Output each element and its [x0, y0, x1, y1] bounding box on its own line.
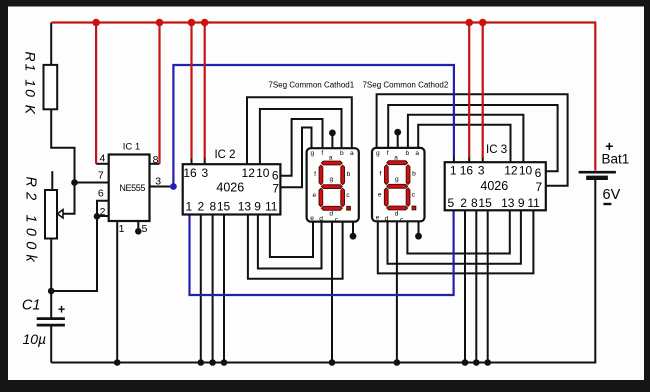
svg-text:+: + [58, 303, 65, 317]
svg-text:1: 1 [119, 223, 125, 235]
svg-text:7Seg Common Cathod2: 7Seg Common Cathod2 [362, 81, 448, 90]
svg-text:10: 10 [256, 166, 270, 180]
svg-text:10µ: 10µ [22, 331, 46, 347]
svg-text:R1 10 K: R1 10 K [23, 52, 39, 117]
svg-text:12: 12 [242, 166, 256, 180]
svg-text:1: 1 [450, 163, 457, 177]
svg-text:5: 5 [447, 196, 454, 210]
svg-text:3: 3 [478, 163, 485, 177]
svg-text:6: 6 [272, 168, 279, 182]
svg-text:2: 2 [460, 196, 467, 210]
svg-text:15: 15 [478, 196, 492, 210]
svg-text:9: 9 [518, 196, 525, 210]
svg-text:6: 6 [98, 188, 104, 200]
svg-text:8: 8 [209, 199, 216, 213]
svg-text:C1: C1 [22, 297, 41, 313]
svg-text:3: 3 [201, 166, 208, 180]
svg-text:1: 1 [185, 199, 192, 213]
svg-text:7Seg Common Cathod1: 7Seg Common Cathod1 [268, 81, 354, 90]
svg-text:7: 7 [535, 180, 542, 194]
svg-text:IC 2: IC 2 [214, 149, 235, 161]
svg-text:8: 8 [153, 154, 159, 166]
svg-text:3: 3 [155, 176, 161, 188]
svg-text:13: 13 [238, 199, 252, 213]
svg-text:15: 15 [217, 199, 231, 213]
svg-text:IC 1: IC 1 [123, 142, 140, 153]
svg-text:4026: 4026 [216, 180, 244, 194]
svg-text:IC 3: IC 3 [486, 144, 507, 156]
svg-text:16: 16 [460, 163, 474, 177]
svg-text:2: 2 [100, 206, 106, 218]
svg-text:7: 7 [272, 181, 279, 195]
svg-text:6V: 6V [603, 187, 621, 203]
svg-text:13: 13 [501, 196, 515, 210]
svg-text:6: 6 [535, 166, 542, 180]
svg-text:11: 11 [527, 196, 540, 210]
svg-text:8: 8 [471, 196, 478, 210]
svg-text:4: 4 [99, 152, 105, 164]
svg-text:16: 16 [183, 166, 197, 180]
svg-text:7: 7 [98, 170, 104, 182]
svg-text:R2 100k: R2 100k [23, 177, 39, 267]
svg-text:5: 5 [142, 223, 148, 235]
svg-text:NE555: NE555 [119, 183, 145, 193]
svg-text:2: 2 [197, 199, 204, 213]
svg-text:9: 9 [254, 199, 261, 213]
svg-text:10: 10 [519, 163, 533, 177]
svg-text:4026: 4026 [480, 179, 508, 193]
svg-text:Bat1: Bat1 [602, 152, 630, 167]
svg-text:11: 11 [265, 199, 278, 213]
svg-text:12: 12 [504, 163, 518, 177]
